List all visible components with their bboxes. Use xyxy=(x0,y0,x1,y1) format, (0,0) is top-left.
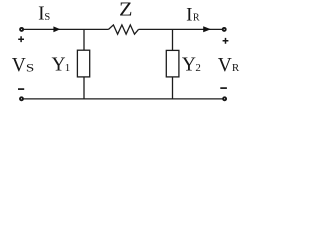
svg-text:R: R xyxy=(193,12,200,23)
terminal bottom-right xyxy=(223,97,226,100)
polarity + at receiving terminal xyxy=(223,38,229,44)
svg-text:1: 1 xyxy=(65,62,71,74)
admittance Y2 (shunt box) xyxy=(166,50,179,77)
wire top-left (source terminal to Z) xyxy=(24,28,109,30)
svg-text:Z: Z xyxy=(119,0,133,21)
wire Y2 branch lower xyxy=(172,77,174,99)
polarity - at receiving bottom terminal xyxy=(220,87,227,89)
wire top-right (Z to receiving terminal) xyxy=(139,28,223,30)
admittance Y1 (shunt box) xyxy=(77,50,89,77)
arrow Ir current direction xyxy=(203,26,211,32)
svg-text:Y: Y xyxy=(51,55,65,76)
svg-text:2: 2 xyxy=(195,62,201,74)
terminal top-left xyxy=(20,28,23,31)
polarity + at sending terminal xyxy=(18,36,24,42)
svg-text:S: S xyxy=(44,12,50,23)
svg-text:I: I xyxy=(186,4,192,25)
terminal top-right xyxy=(223,28,226,31)
svg-text:V: V xyxy=(12,55,26,76)
arrow Is current direction xyxy=(53,26,60,32)
svg-text:R: R xyxy=(232,62,240,74)
terminal bottom-left xyxy=(20,97,23,100)
wire Y2 branch upper xyxy=(172,29,174,50)
svg-text:V: V xyxy=(218,55,232,76)
svg-text:S: S xyxy=(26,62,34,74)
polarity - at sending bottom terminal xyxy=(18,88,24,90)
impedance Z (series zigzag) xyxy=(109,25,139,34)
wire bottom rail xyxy=(24,98,223,100)
wire Y1 branch upper xyxy=(83,29,85,50)
wire Y1 branch lower xyxy=(83,77,85,99)
svg-text:Y: Y xyxy=(182,55,196,76)
